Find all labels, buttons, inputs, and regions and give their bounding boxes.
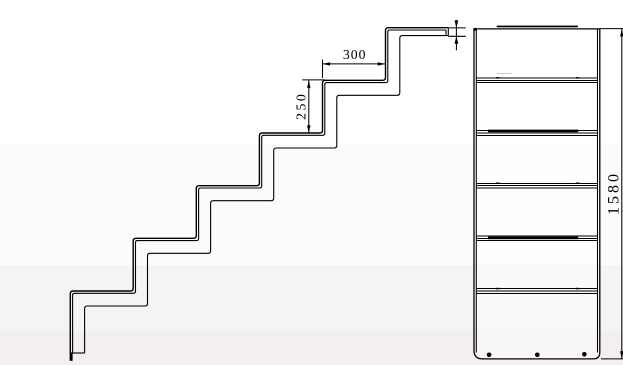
dim thickness: vertical line xyxy=(455,20,457,50)
front view bolt hole right xyxy=(582,352,587,357)
divider 3 end nubs xyxy=(496,183,499,185)
front view step divider 2 xyxy=(476,131,597,136)
svg-text:250: 250 xyxy=(293,92,308,120)
front view far tread thick segment on divider 4 xyxy=(488,237,578,240)
dim 300: dimension line xyxy=(323,63,386,65)
svg-text:300: 300 xyxy=(343,47,367,62)
front view far tread thick segment on divider 2 xyxy=(488,130,578,133)
divider 1 end nubs xyxy=(496,77,499,79)
top tread end cap xyxy=(446,28,448,36)
bottom end cap xyxy=(70,352,84,354)
front view step divider 1 xyxy=(476,78,597,83)
background band pinkgray xyxy=(0,330,623,365)
svg-text:1580: 1580 xyxy=(605,171,622,215)
dim thickness: lower arrow (up) xyxy=(455,36,459,44)
dim 1580: dimension line xyxy=(621,29,623,359)
dim thickness: extension line lower xyxy=(448,35,466,37)
dim 1580: extension line top xyxy=(600,28,623,30)
front view bolt hole middle xyxy=(535,353,540,358)
dim 250: dimension line xyxy=(308,80,310,133)
dim 300: right arrow xyxy=(378,62,386,65)
front view bolt hole left xyxy=(487,353,492,358)
front view white panel fill xyxy=(474,29,600,359)
dim 250: extension line top xyxy=(302,79,325,81)
dim 250: top arrow xyxy=(307,80,310,88)
stair stringer outer surface line (side view) xyxy=(70,28,448,353)
front view top far tread thick segment xyxy=(497,26,578,28)
background band pink xyxy=(0,145,623,265)
dim thickness: upper arrow (down) xyxy=(455,20,459,28)
dim 1580: bottom arrow xyxy=(620,351,623,359)
front view inner right plate line xyxy=(597,29,599,353)
stair stringer far edge line (oblique depth) xyxy=(85,36,449,353)
dim 300: extension line left xyxy=(322,60,324,78)
bottom thick tick xyxy=(70,353,73,361)
stair stringer plate inner pair line xyxy=(73,30,446,353)
background band gray xyxy=(0,265,623,330)
dim 300: left arrow xyxy=(323,62,331,65)
front view inner left plate line xyxy=(475,29,477,353)
divider 5 end nubs xyxy=(496,288,499,290)
dim 1580: extension line bottom xyxy=(601,358,623,360)
front view step divider 3 xyxy=(476,183,597,188)
dim 250: bottom arrow xyxy=(307,125,310,133)
front view top-left corner junction dot xyxy=(474,28,477,31)
dim 1580: top arrow xyxy=(620,29,623,37)
dim thickness: extension line upper xyxy=(448,27,466,29)
front view step divider 5 xyxy=(476,289,597,294)
background band white xyxy=(0,0,623,145)
front view outline (rounded bottom corners) xyxy=(474,29,600,359)
faint far line above divider 1 xyxy=(497,72,513,74)
front view step divider 4 xyxy=(476,236,597,241)
